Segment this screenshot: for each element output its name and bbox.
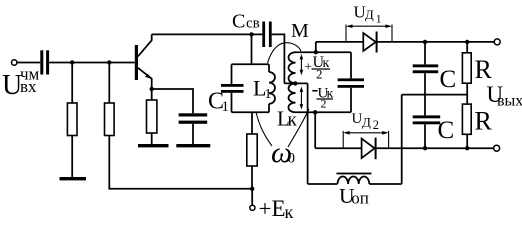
node emitter dot <box>150 87 154 91</box>
wire middle link <box>402 94 468 96</box>
node bottom rail dot R <box>465 146 469 150</box>
transistor VT1 base bar <box>135 45 138 80</box>
leader curve omega0 to tank <box>256 112 272 146</box>
inductor Lk upper half <box>289 52 296 83</box>
node +Ek terminal <box>250 205 255 210</box>
wire Rb2 down and right to +Ek rail <box>109 136 252 189</box>
svg-text:1: 1 <box>376 14 382 26</box>
resistor Rb2 <box>105 103 115 136</box>
svg-text:C: C <box>438 117 455 144</box>
wire to resistor Rb2 <box>108 63 110 104</box>
node center tap dot <box>293 81 297 85</box>
wire reference vertical <box>401 95 403 184</box>
label -Uk/2 <box>312 90 317 92</box>
svg-text:оп: оп <box>351 189 369 208</box>
node top rail dot <box>314 50 318 54</box>
node output terminal top <box>494 39 500 45</box>
resistor Rb1 <box>67 103 77 136</box>
svg-text:к: к <box>285 202 294 222</box>
capacitor C1 <box>221 84 244 87</box>
wire diode VD2 line <box>315 147 493 149</box>
resistor R top <box>462 53 471 83</box>
wire C chain top <box>424 42 426 65</box>
wire input to capacitor <box>17 62 40 64</box>
node junction dot B <box>107 60 111 64</box>
wire secondary top rail <box>296 51 352 53</box>
wire +Ek node to terminal <box>251 189 253 205</box>
wire center tap <box>284 82 307 84</box>
node junction dot A <box>70 60 74 64</box>
svg-text:вх: вх <box>20 77 37 96</box>
wire collector rail <box>152 33 263 35</box>
node +Ek junction dot <box>250 187 254 191</box>
svg-text:0: 0 <box>288 151 296 167</box>
inductor Lk lower half <box>288 83 295 112</box>
annotation arrow +Uk/2 <box>300 57 302 73</box>
wire emitter to resistor Re <box>151 89 153 100</box>
svg-text:M: M <box>291 20 309 42</box>
svg-text:вых: вых <box>497 93 522 110</box>
dimension arrow UD2 <box>345 132 386 134</box>
dimension tick left UD1 <box>345 25 347 42</box>
leader curve omega0 to Lk <box>288 109 309 147</box>
node input terminal <box>12 60 17 65</box>
inductor Uop core bar <box>337 173 372 175</box>
svg-text:1: 1 <box>265 87 272 102</box>
wire secondary bottom to diode VD2 <box>314 112 316 148</box>
mutual coupling M arc <box>268 43 302 63</box>
ground bar 2 <box>138 144 169 147</box>
capacitor C top <box>413 64 439 67</box>
svg-text:2: 2 <box>316 67 323 82</box>
node top rail dot C <box>423 40 427 44</box>
wire Rk to +Ek node <box>251 166 253 189</box>
inductor Uop <box>338 177 370 185</box>
node top rail dot R <box>465 40 469 44</box>
wire tank to resistor Rk <box>251 112 253 134</box>
dimension tick right UD1 <box>391 25 393 42</box>
ground bar 1 <box>60 177 87 180</box>
transistor VT1 collector <box>138 34 152 56</box>
wire collector rail to tank <box>251 34 253 64</box>
svg-text:2: 2 <box>373 118 379 132</box>
svg-text:+E: +E <box>259 196 286 221</box>
capacitor Csv <box>262 22 265 48</box>
wire R chain middle <box>466 83 468 104</box>
wire R chain top <box>466 42 468 53</box>
resistor R bottom <box>462 104 471 134</box>
capacitor Ck <box>338 78 364 81</box>
wire C chain bottom <box>424 124 426 148</box>
wire Re to ground <box>151 133 153 144</box>
wire secondary bottom rail <box>296 111 352 113</box>
wire to resistor Rb1 <box>71 63 73 104</box>
node output terminal bottom <box>494 145 500 151</box>
annotation arrow -Uk/2 <box>300 90 302 107</box>
transistor VT1 emitter <box>138 68 152 89</box>
diode VD2 <box>362 139 375 158</box>
svg-text:C: C <box>232 11 245 33</box>
capacitor C bottom <box>413 115 441 118</box>
wire Uop right <box>369 183 401 185</box>
svg-text:Д: Д <box>362 115 371 130</box>
resistor Rk <box>247 134 257 166</box>
inductor L1 <box>269 72 275 104</box>
diode VD1 <box>363 33 376 51</box>
wire Rb1 to ground <box>71 136 73 178</box>
wire diode VD1 line <box>316 41 494 43</box>
wire capacitor to base <box>49 62 135 64</box>
wire C chain middle <box>424 73 426 115</box>
dimension tick left UD2 <box>342 131 344 148</box>
wire stub to diode VD1 line <box>315 42 317 52</box>
svg-text:+: + <box>305 59 312 74</box>
node bottom rail dot <box>313 110 317 114</box>
ground bar 3 <box>176 144 210 147</box>
svg-text:C: C <box>440 66 457 93</box>
svg-text:R: R <box>475 107 493 136</box>
svg-text:R: R <box>475 55 493 84</box>
wire bypass cap to ground <box>192 124 194 144</box>
wire R chain bottom <box>466 134 468 148</box>
node bottom rail dot C <box>423 146 427 150</box>
wire center tap down <box>307 83 309 184</box>
capacitor input coupling <box>40 50 43 74</box>
dimension tick right UD2 <box>388 131 390 148</box>
resistor Re <box>147 100 157 133</box>
wire secondary right branch <box>350 52 352 112</box>
wire emitter to bypass cap <box>152 89 193 113</box>
wire Csv to center-tap feed <box>272 34 285 83</box>
svg-text:1: 1 <box>222 99 230 115</box>
capacitor emitter bypass <box>179 113 208 116</box>
svg-text:U: U <box>352 111 363 127</box>
svg-text:Д: Д <box>365 7 374 22</box>
svg-text:св: св <box>246 16 260 32</box>
svg-text:2: 2 <box>321 97 327 111</box>
dimension arrow UD1 <box>348 25 390 27</box>
tank circuit loop wires <box>232 64 270 112</box>
wire Uop left <box>308 183 338 185</box>
node collector rail dot <box>249 32 253 36</box>
